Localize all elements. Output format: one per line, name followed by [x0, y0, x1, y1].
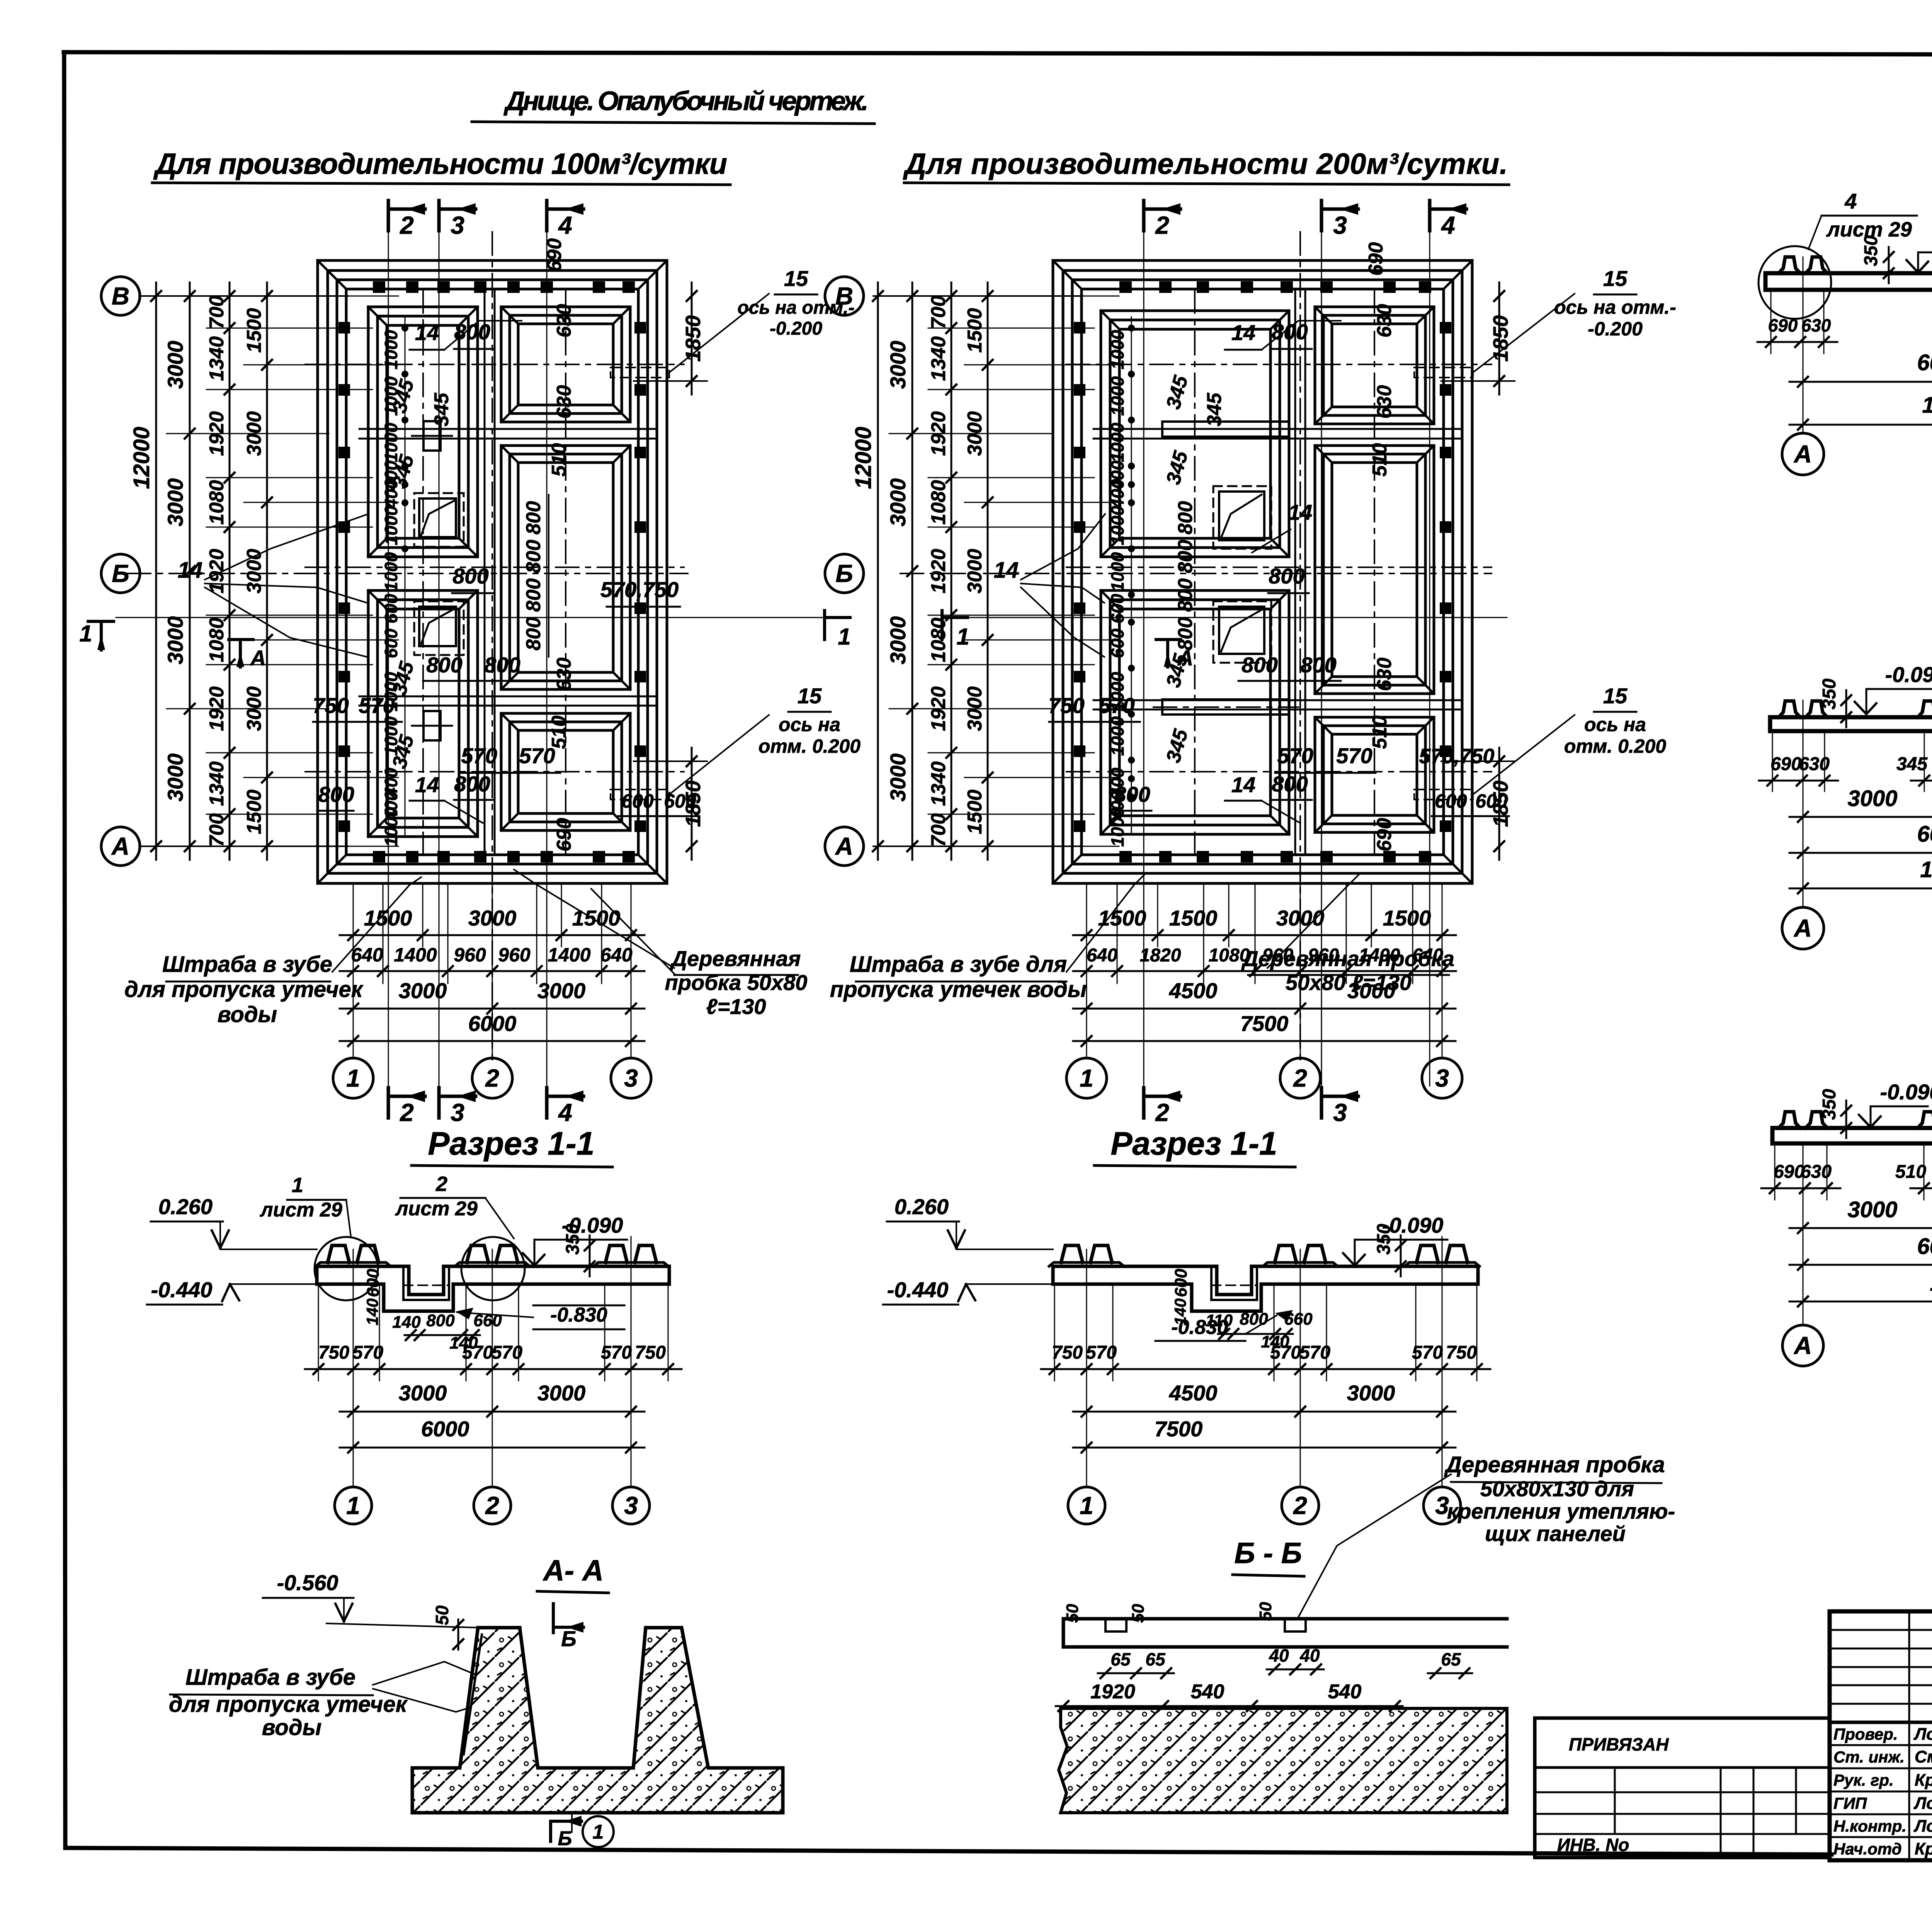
svg-text:пробка 50x80: пробка 50x80	[665, 970, 808, 995]
detail B-B top slab	[1063, 1619, 1507, 1647]
svg-text:1000: 1000	[1107, 330, 1128, 369]
plan200 bottom section flags	[1142, 1088, 1146, 1118]
svg-text:345: 345	[1896, 754, 1928, 774]
svg-text:345: 345	[1162, 448, 1192, 487]
svg-text:А: А	[1793, 914, 1812, 942]
section 3-3	[1759, 543, 1932, 949]
svg-text:14: 14	[178, 558, 203, 583]
svg-text:1000: 1000	[1107, 807, 1128, 847]
plan100 extension lines	[167, 296, 398, 846]
plan100 dim chain 12000	[155, 282, 157, 860]
svg-text:12000: 12000	[1930, 1271, 1932, 1296]
section 3-3 slab	[1770, 715, 1932, 720]
section 4-4	[1761, 968, 1932, 1366]
section 3-3 teeth pair	[1779, 701, 1800, 717]
plan200 800 dim texts	[1048, 320, 1509, 823]
svg-text:2: 2	[1293, 1064, 1307, 1092]
svg-text:1: 1	[79, 621, 92, 646]
svg-text:1000: 1000	[381, 807, 401, 847]
svg-text:Краснова: Краснова	[1915, 1771, 1932, 1790]
plan200 extension lines	[889, 296, 1119, 846]
svg-text:800: 800	[454, 772, 490, 796]
plan100 label 15 os na otm upper	[737, 266, 854, 339]
svg-text:3000: 3000	[537, 978, 586, 1003]
detail B-B hatched base strip	[1059, 1708, 1507, 1813]
plan200 keyway channel upper	[1153, 422, 1298, 437]
svg-text:Красавин: Красавин	[1915, 1839, 1932, 1858]
svg-text:960: 960	[498, 944, 531, 966]
svg-text:640: 640	[351, 944, 383, 966]
svg-text:630: 630	[1801, 315, 1831, 335]
section 2-2 detail circle 4	[1759, 246, 1831, 319]
plan200 section cut line 1-1	[947, 617, 1507, 618]
svg-text:2: 2	[1293, 1492, 1307, 1519]
svg-text:800: 800	[522, 578, 545, 612]
svg-text:1080: 1080	[206, 480, 228, 525]
svg-text:-0.830: -0.830	[550, 1304, 607, 1326]
plan100 inner section flag A	[229, 640, 266, 670]
section 1-1 right extension verticals	[1054, 1237, 1477, 1487]
section 3-3 small dims	[1759, 780, 1838, 782]
svg-text:800: 800	[318, 782, 354, 806]
svg-text:3: 3	[1333, 1099, 1347, 1126]
section 1-1 right recess small dims	[1206, 1310, 1313, 1351]
svg-text:750: 750	[1048, 693, 1084, 718]
svg-text:140: 140	[392, 1313, 421, 1332]
section 4-4 dim 3000	[1789, 1227, 1932, 1229]
svg-text:345: 345	[1203, 393, 1226, 427]
plan200 outer wall ring	[1053, 260, 1472, 883]
svg-text:630: 630	[553, 658, 575, 691]
section 2-2 dim 12000	[1789, 424, 1932, 426]
svg-text:65: 65	[1441, 1649, 1461, 1669]
svg-text:ИНВ. No: ИНВ. No	[1557, 1835, 1629, 1855]
svg-text:800: 800	[1272, 772, 1308, 796]
section 1-1 right slab profile	[1049, 1245, 1480, 1311]
svg-text:1850: 1850	[1489, 315, 1512, 362]
svg-text:14: 14	[1231, 320, 1255, 345]
section 1-1 right elevation 0.260	[887, 1194, 1053, 1249]
svg-text:4: 4	[1440, 211, 1455, 239]
svg-text:570,750: 570,750	[1419, 745, 1494, 768]
svg-text:3: 3	[1333, 211, 1347, 239]
svg-text:750: 750	[313, 693, 349, 718]
svg-text:570: 570	[1299, 1342, 1330, 1363]
svg-text:690: 690	[1770, 754, 1801, 774]
title block stamp	[1830, 1611, 1932, 1870]
svg-text:15: 15	[784, 266, 808, 291]
svg-text:630: 630	[553, 304, 575, 338]
svg-text:1000: 1000	[381, 552, 401, 592]
plan100 right cell 2	[501, 446, 630, 689]
svg-text:510: 510	[548, 443, 570, 477]
svg-text:800: 800	[1269, 564, 1304, 588]
section 4-4 slab	[1772, 1126, 1932, 1130]
section 1-1 left recess small dims	[392, 1311, 502, 1352]
svg-text:воды: воды	[262, 1715, 321, 1740]
svg-text:Б: Б	[561, 1626, 577, 1651]
svg-text:40: 40	[1299, 1645, 1320, 1666]
svg-text:1: 1	[346, 1492, 360, 1519]
section 4-4 axis circles	[1782, 1325, 1823, 1366]
svg-text:отм. 0.200: отм. 0.200	[759, 735, 861, 757]
plan100 inner tick chain with dots	[401, 317, 408, 835]
svg-text:2: 2	[485, 1492, 499, 1519]
svg-text:4500: 4500	[1169, 978, 1218, 1003]
svg-text:350: 350	[1861, 235, 1881, 266]
plan200 bottom dim chains	[1073, 906, 1456, 1046]
svg-text:1340: 1340	[206, 761, 228, 806]
svg-text:800: 800	[426, 653, 462, 677]
svg-text:Деревянная пробка: Деревянная пробка	[1444, 1452, 1665, 1477]
plan200 dashed plug detail upper	[1414, 294, 1575, 378]
svg-text:1500: 1500	[1169, 906, 1218, 930]
svg-text:1920: 1920	[927, 549, 950, 594]
svg-text:570: 570	[1086, 1342, 1117, 1363]
plan100 dashed plug detail upper	[611, 294, 769, 378]
label probka plan200	[1241, 873, 1454, 995]
svg-text:800: 800	[1240, 1310, 1268, 1329]
svg-text:для пропуска утечек: для пропуска утечек	[124, 977, 364, 1002]
plan200 dim chain 1500-3000	[987, 282, 989, 860]
svg-text:800: 800	[454, 320, 490, 344]
svg-text:600: 600	[1107, 628, 1128, 658]
svg-text:1: 1	[593, 1821, 604, 1843]
plan100 keyway channel upper	[412, 421, 452, 451]
svg-text:1920: 1920	[1090, 1681, 1135, 1703]
svg-text:А: А	[1177, 646, 1193, 670]
plan200 dashed plug detail lower	[1414, 715, 1575, 800]
plan100 bottom dim chains	[340, 906, 645, 1046]
section 4-4 teeth pair	[1779, 1112, 1800, 1128]
plan100 dim chain 3000x4	[189, 282, 191, 860]
plan100 section cut line 1-1	[116, 617, 842, 618]
section 1-1 right label -0.830	[1155, 1310, 1293, 1341]
svg-text:14: 14	[415, 772, 439, 797]
svg-text:1340: 1340	[927, 761, 950, 806]
svg-text:Штраба в зубе для: Штраба в зубе для	[850, 952, 1067, 977]
section 1-1 left slab profile	[316, 1245, 669, 1311]
svg-text:Лоуцкер: Лоуцкер	[1913, 1725, 1932, 1744]
subtitle plan 200	[903, 148, 1509, 185]
plan200 sump square lower	[1213, 601, 1271, 663]
svg-text:800: 800	[452, 564, 488, 588]
plan200 rotated dims right column	[1365, 242, 1396, 852]
plan200 label 15 lower	[1564, 684, 1666, 757]
attachment table left	[1535, 1718, 1830, 1858]
svg-text:воды: воды	[218, 1002, 277, 1027]
svg-text:2: 2	[1155, 211, 1169, 239]
svg-text:Разрез 1-1: Разрез 1-1	[1111, 1125, 1277, 1162]
svg-text:-0.090: -0.090	[1880, 1080, 1932, 1104]
plan100 sump square upper	[414, 493, 464, 547]
svg-text:750: 750	[1446, 1342, 1477, 1363]
svg-text:7500: 7500	[1155, 1417, 1203, 1441]
svg-text:600: 600	[381, 594, 401, 623]
svg-text:1500: 1500	[243, 789, 265, 834]
detail A-A shtraba lining on left slope	[464, 1628, 520, 1754]
svg-text:510: 510	[1895, 1162, 1926, 1182]
plan200 dim chain fine	[951, 282, 952, 860]
plan200 left axis circles	[825, 277, 864, 315]
section 4-4 teeth pair	[1918, 1112, 1932, 1128]
svg-text:640: 640	[1087, 945, 1117, 966]
plan200 cross walls	[1094, 429, 1461, 709]
svg-text:4500: 4500	[1169, 1381, 1218, 1405]
svg-text:3: 3	[451, 211, 464, 239]
svg-text:700: 700	[206, 296, 228, 329]
svg-text:3000: 3000	[886, 341, 910, 389]
main title: Dnishche. Opalubochny chertezh	[472, 86, 874, 124]
plan100 keyway channel lower	[412, 711, 452, 740]
svg-text:ось на: ось на	[1584, 714, 1646, 735]
svg-text:800: 800	[1300, 653, 1336, 677]
section 1-1 left axis circles	[335, 1487, 372, 1524]
section 1-1 left dim row3	[340, 1417, 645, 1453]
svg-text:3: 3	[624, 1064, 638, 1092]
svg-text:700: 700	[927, 296, 950, 329]
section 3-3 dim 12000	[1789, 888, 1932, 890]
plan100 bottom section flags	[387, 1088, 390, 1118]
plan100 axis center lines	[128, 232, 688, 1061]
plan200 1850 dim right upper	[1441, 282, 1515, 395]
svg-text:Провер.: Провер.	[1833, 1725, 1898, 1743]
svg-text:3: 3	[451, 1099, 464, 1126]
svg-text:510: 510	[1369, 443, 1391, 477]
svg-text:Для производительности 200м: Для производительности 200м³/сутки.	[903, 148, 1508, 180]
plan100 left axis circles	[101, 277, 140, 315]
svg-text:140: 140	[363, 1298, 381, 1325]
svg-text:ПРИВЯЗАН: ПРИВЯЗАН	[1569, 1734, 1669, 1754]
plan200 side section flag 1	[942, 611, 969, 650]
section 2-2 small dims	[1757, 341, 1837, 343]
plan200 middle wall	[1295, 290, 1305, 854]
svg-text:2: 2	[435, 1172, 447, 1196]
svg-text:630: 630	[1373, 658, 1396, 691]
svg-text:640: 640	[600, 944, 633, 966]
svg-text:800: 800	[522, 617, 545, 651]
section 2-2	[1757, 86, 1932, 475]
detail A-A section flag B top	[553, 1604, 583, 1651]
svg-text:3000: 3000	[1847, 1197, 1897, 1222]
svg-text:570: 570	[519, 743, 555, 768]
svg-text:3000: 3000	[964, 549, 986, 594]
svg-text:1500: 1500	[572, 906, 621, 930]
plan200 label 15 upper	[1554, 266, 1676, 340]
svg-text:Б: Б	[835, 560, 853, 587]
plan100 bottom axis circles	[333, 1058, 373, 1098]
svg-text:40: 40	[1269, 1645, 1289, 1666]
section 2-2 dim 6000	[1789, 381, 1932, 383]
svg-text:350: 350	[563, 1224, 583, 1255]
svg-text:65: 65	[1111, 1649, 1131, 1669]
plan100 dim chain fine	[229, 282, 231, 860]
svg-text:Деревянная: Деревянная	[670, 946, 801, 971]
detail B-B title	[1233, 1537, 1304, 1576]
section 1-1 right axis circles	[1068, 1487, 1105, 1524]
svg-text:660: 660	[1284, 1310, 1313, 1329]
section 4-4 dim 12000	[1789, 1301, 1932, 1303]
svg-text:А- А: А- А	[543, 1554, 604, 1587]
svg-text:600: 600	[381, 628, 401, 658]
svg-text:4: 4	[558, 1099, 572, 1126]
section 1-1 left title	[412, 1125, 612, 1167]
plan200 sump square upper	[1213, 486, 1271, 549]
svg-text:110: 110	[1206, 1311, 1233, 1330]
plan200 bottom axis circles	[1066, 1058, 1107, 1098]
svg-text:3000: 3000	[886, 616, 910, 665]
plan200 right cell 2	[1315, 446, 1434, 694]
svg-text:2: 2	[1155, 1099, 1169, 1126]
plan200 dim chain 3000x4	[912, 282, 913, 860]
plan200 345 labels upper	[1162, 373, 1226, 487]
svg-text:2: 2	[485, 1064, 499, 1092]
plan100 cross walls	[359, 429, 657, 706]
label derevyannaya probka B-B	[1298, 1452, 1675, 1617]
svg-text:1500: 1500	[1383, 906, 1431, 930]
svg-text:Б: Б	[558, 1827, 572, 1850]
svg-text:630: 630	[1373, 385, 1396, 419]
svg-text:570: 570	[601, 1342, 632, 1363]
svg-text:3000: 3000	[886, 478, 910, 527]
section 4-4 extension verticals	[1803, 1143, 1804, 1325]
plan200 section cut lines 2 3 4	[1144, 232, 1430, 1086]
svg-text:800: 800	[522, 540, 545, 573]
label shtraba v zube A-A	[169, 1662, 472, 1740]
section 1-1 left rotated dims 600-140	[363, 1269, 383, 1325]
section 2-2 extension verticals	[1803, 257, 1804, 433]
plan200 inner tick chain with dots	[1128, 317, 1135, 835]
svg-text:А: А	[1793, 1332, 1812, 1359]
svg-text:50x80 ℓ=130: 50x80 ℓ=130	[1286, 970, 1412, 995]
svg-text:Лоуцкер: Лоуцкер	[1913, 1817, 1932, 1836]
section 1-1 left elevation -0.440	[147, 1278, 317, 1305]
svg-text:570: 570	[461, 743, 497, 768]
plan200 dim chain 12000	[877, 282, 879, 860]
plan200 wooden plug marks	[1075, 282, 1451, 862]
svg-text:А: А	[111, 832, 129, 860]
plan100 sump square lower	[414, 601, 464, 655]
svg-text:12000: 12000	[1920, 857, 1932, 882]
section 3-3 dim 3000	[1789, 816, 1932, 818]
plan100 1850 dim right lower	[634, 748, 707, 860]
svg-text:540: 540	[1191, 1681, 1225, 1703]
section 1-1 left label -0.830	[456, 1304, 624, 1329]
svg-text:2: 2	[400, 1099, 414, 1126]
svg-text:0.260: 0.260	[895, 1194, 949, 1219]
svg-text:ГИП: ГИП	[1833, 1794, 1867, 1812]
svg-text:-0.440: -0.440	[151, 1278, 213, 1302]
svg-text:отм. 0.200: отм. 0.200	[1564, 735, 1666, 757]
svg-text:3000: 3000	[163, 341, 187, 389]
label shtraba v zube plan100	[124, 877, 421, 1027]
plan100 outer wall ring	[318, 260, 667, 883]
svg-text:1: 1	[838, 624, 850, 650]
svg-text:1000: 1000	[1107, 552, 1128, 592]
plan100 upper-left trough cell	[368, 307, 478, 557]
label derevyannaya probka plan100	[514, 869, 807, 1019]
svg-text:6000: 6000	[1917, 350, 1932, 375]
plan200 upper-left trough cell	[1101, 311, 1289, 557]
svg-text:4: 4	[1844, 189, 1857, 213]
svg-text:630: 630	[553, 385, 575, 419]
section 1-1 right dim chain 750-570	[1041, 1342, 1490, 1374]
svg-text:1500: 1500	[1098, 906, 1146, 930]
svg-text:570: 570	[359, 693, 395, 718]
svg-text:1400: 1400	[548, 944, 590, 966]
svg-text:1000: 1000	[381, 505, 401, 545]
section 1-1 right elevation -0.440	[883, 1278, 1053, 1305]
svg-text:50: 50	[1129, 1604, 1148, 1623]
svg-text:3: 3	[624, 1492, 638, 1519]
svg-text:Разрез 1-1: Разрез 1-1	[428, 1125, 594, 1162]
svg-text:6000: 6000	[1917, 822, 1932, 847]
svg-text:14: 14	[1288, 500, 1312, 524]
svg-text:570: 570	[462, 1342, 493, 1363]
svg-text:400: 400	[1107, 479, 1128, 509]
plan200 345 labels lower	[1162, 651, 1192, 765]
plan100 14 leader lines	[178, 514, 368, 657]
svg-text:350: 350	[1374, 1224, 1394, 1255]
svg-text:600: 600	[1107, 594, 1128, 623]
svg-text:570: 570	[492, 1342, 522, 1363]
svg-text:-0.200: -0.200	[770, 318, 822, 339]
svg-text:6000: 6000	[1917, 1234, 1932, 1259]
svg-text:1400: 1400	[394, 944, 437, 966]
svg-text:1080: 1080	[927, 618, 950, 662]
svg-text:7500: 7500	[1240, 1011, 1289, 1036]
plan200 row axis lines	[873, 296, 1082, 846]
svg-text:700: 700	[206, 813, 228, 847]
svg-text:14: 14	[1231, 772, 1255, 797]
section 3-3 axis circles	[1782, 907, 1824, 949]
svg-text:345: 345	[388, 659, 418, 698]
svg-text:Смирнова: Смирнова	[1915, 1747, 1932, 1766]
section 2-2 teeth pair	[1779, 257, 1800, 273]
svg-text:2: 2	[400, 211, 414, 239]
svg-text:0.260: 0.260	[158, 1194, 213, 1219]
plan100 rotated dims right column	[543, 238, 575, 852]
section 1-1 left dim chain 750-570	[305, 1342, 682, 1374]
svg-text:щих панелей: щих панелей	[1485, 1521, 1626, 1546]
svg-text:для пропуска утечек: для пропуска утечек	[169, 1692, 408, 1717]
svg-text:12000: 12000	[129, 427, 154, 489]
plan100 dim chain 1500-3000	[266, 282, 268, 860]
section 1-1 right dim row2	[1073, 1381, 1456, 1417]
plan100 right cell 1	[501, 307, 630, 422]
svg-text:570: 570	[352, 1342, 383, 1363]
svg-text:12000: 12000	[1922, 393, 1932, 418]
svg-text:1500: 1500	[964, 308, 986, 353]
plan200 inner dim texts 1000 chain	[1107, 330, 1128, 847]
svg-text:700: 700	[927, 813, 950, 847]
title block main divider	[1830, 1721, 1932, 1724]
svg-text:800: 800	[1242, 653, 1277, 677]
svg-text:3000: 3000	[399, 1381, 447, 1405]
svg-text:350: 350	[1819, 679, 1840, 709]
plan100 dashed plug detail lower	[611, 715, 769, 800]
svg-text:750: 750	[635, 1342, 666, 1363]
section 1-1 right dim row3	[1073, 1417, 1456, 1453]
svg-text:Для производительности 100м³: Для производительности 100м³/сутки	[153, 148, 727, 180]
svg-text:1000: 1000	[1107, 376, 1128, 416]
plan100 lower-left trough cell	[368, 590, 478, 837]
svg-text:1080: 1080	[206, 618, 228, 662]
svg-text:Лоуцкер: Лоуцкер	[1913, 1794, 1932, 1813]
svg-text:800: 800	[1174, 578, 1197, 612]
svg-text:14: 14	[415, 320, 439, 345]
section 1-1 left elevation 0.260	[151, 1194, 317, 1249]
